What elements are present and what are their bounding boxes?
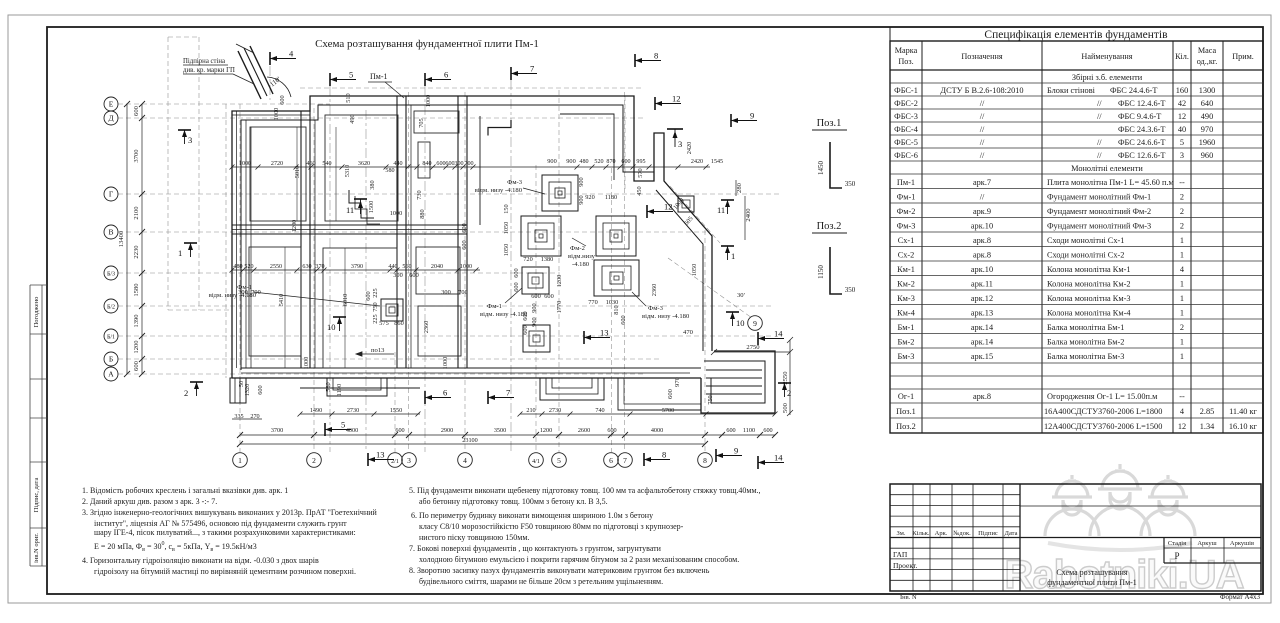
svg-text:1: 1 <box>1180 236 1184 245</box>
svg-text:А: А <box>108 370 114 379</box>
flag 2 right <box>778 383 791 398</box>
svg-text:1: 1 <box>1180 280 1184 289</box>
svg-text:11.40 кг: 11.40 кг <box>1229 407 1257 416</box>
svg-text:Фм-3: Фм-3 <box>897 222 916 231</box>
svg-text:1180: 1180 <box>605 194 617 201</box>
30 deg dashed line <box>668 258 752 318</box>
svg-text:2: 2 <box>787 388 791 398</box>
axis circle 2 <box>307 453 322 468</box>
svg-text:Поз.: Поз. <box>898 57 913 66</box>
porch bay 2 <box>540 378 604 400</box>
right dim line 2550/500 <box>789 340 791 415</box>
svg-text:1: 1 <box>178 248 182 258</box>
svg-text:1: 1 <box>1180 251 1184 260</box>
axis 4/1 line <box>535 165 537 452</box>
svg-text:13: 13 <box>376 450 385 460</box>
svg-text:7: 7 <box>623 456 627 465</box>
header bottom <box>890 69 1263 71</box>
svg-text:740: 740 <box>595 407 604 414</box>
svg-text:1200: 1200 <box>291 220 298 233</box>
svg-text:600: 600 <box>461 223 468 232</box>
svg-text:арк.8: арк.8 <box>973 236 991 245</box>
svg-text:480: 480 <box>233 264 242 270</box>
svg-text:2.85: 2.85 <box>1200 407 1215 416</box>
svg-text:відм.низу: відм.низу <box>568 253 596 260</box>
table data rows <box>894 73 1258 431</box>
svg-text:1050: 1050 <box>691 264 698 277</box>
svg-text:490: 490 <box>349 114 356 123</box>
svg-text:50: 50 <box>238 381 245 387</box>
svg-text:холодною бітумною емульсією і: холодною бітумною емульсією і покрити га… <box>419 555 739 564</box>
svg-text:Г: Г <box>109 190 114 199</box>
svg-text:6. По периметру будинку викона: 6. По периметру будинку виконати вимощен… <box>411 511 653 520</box>
flag 13 mid <box>584 328 610 345</box>
left strip column <box>29 285 31 566</box>
svg-text:1: 1 <box>1180 338 1184 347</box>
svg-text:5: 5 <box>341 420 345 430</box>
svg-text:3: 3 <box>1180 151 1184 160</box>
svg-text:Е: Е <box>109 100 114 109</box>
svg-text:150: 150 <box>503 204 510 213</box>
svg-text:1: 1 <box>1180 294 1184 303</box>
svg-text:5010: 5010 <box>294 166 301 179</box>
svg-text:арк.14: арк.14 <box>971 323 994 332</box>
axis circle 21 <box>388 453 403 468</box>
svg-text:Фм-1: Фм-1 <box>487 303 502 310</box>
svg-text:1000: 1000 <box>303 357 310 370</box>
flag 3 right chimney <box>667 129 683 149</box>
svg-text:Формат А4х3: Формат А4х3 <box>1220 593 1261 601</box>
worker left <box>1045 475 1099 536</box>
axis B line <box>118 358 660 360</box>
wall inner line 2 <box>560 114 614 180</box>
flag 6 top <box>425 70 451 87</box>
svg-text:1490: 1490 <box>310 407 322 414</box>
svg-text:2: 2 <box>1180 222 1184 231</box>
svg-text:900: 900 <box>547 158 556 165</box>
svg-text:1: 1 <box>731 251 735 261</box>
axis 2 line <box>313 108 315 452</box>
svg-text:Погоджено: Погоджено <box>33 297 40 328</box>
svg-text:--: -- <box>1179 392 1185 401</box>
bottom dim row y414 <box>300 413 420 415</box>
svg-text:5: 5 <box>1180 138 1184 147</box>
axis circle 6 <box>604 453 619 468</box>
svg-text:1190: 1190 <box>336 384 343 396</box>
interior wall v2 <box>396 96 398 368</box>
svg-text:1200: 1200 <box>556 275 563 288</box>
svg-text:відм. низу -4.180: відм. низу -4.180 <box>209 292 257 299</box>
svg-text:Колона монолітна Км-4: Колона монолітна Км-4 <box>1047 309 1131 318</box>
svg-text:5: 5 <box>557 456 561 465</box>
svg-text:Балка монолітна Бм-3: Балка монолітна Бм-3 <box>1047 352 1124 361</box>
axis circle G <box>104 187 118 201</box>
column lines <box>921 41 923 433</box>
svg-text:12: 12 <box>672 94 681 104</box>
svg-text:480: 480 <box>579 159 588 165</box>
svg-text:600: 600 <box>436 161 445 167</box>
svg-text:Колона монолітна Км-3: Колона монолітна Км-3 <box>1047 294 1131 303</box>
axis B2 line <box>118 305 772 307</box>
svg-text:Км-2: Км-2 <box>897 280 915 289</box>
svg-text:Е = 20 мПа, Фв = 300, св = 5кП: Е = 20 мПа, Фв = 300, св = 5кПа, Yв = 19… <box>94 541 257 553</box>
svg-text:Арк.: Арк. <box>935 530 948 537</box>
flag 6 bottom <box>425 388 451 405</box>
axis circle B1 <box>104 329 118 343</box>
svg-text:3: 3 <box>407 456 411 465</box>
room R4 <box>323 248 397 368</box>
svg-text:Блоки стінові: Блоки стінові <box>1047 86 1096 95</box>
svg-text:7: 7 <box>530 64 534 74</box>
svg-text:900: 900 <box>578 177 585 186</box>
svg-text:4000: 4000 <box>346 427 358 434</box>
svg-text:2360: 2360 <box>651 284 658 297</box>
svg-text:600: 600 <box>133 105 140 116</box>
svg-text:600: 600 <box>133 360 140 371</box>
svg-text:920: 920 <box>585 194 594 201</box>
svg-text:од.,кг.: од.,кг. <box>1197 57 1218 66</box>
section cut line 13 <box>365 110 367 452</box>
svg-text:970: 970 <box>674 376 681 387</box>
inner wall contour <box>241 105 654 370</box>
svg-text:Збірні з.б. елементи: Збірні з.б. елементи <box>1072 73 1143 82</box>
section cut line 7 <box>510 80 512 452</box>
svg-text:арк.10: арк.10 <box>971 222 993 231</box>
axis circle D <box>104 111 118 125</box>
svg-text:7. Бокові поверхні фундаментів: 7. Бокові поверхні фундаментів , що конт… <box>409 544 662 553</box>
svg-text:6010: 6010 <box>342 294 349 307</box>
svg-text:Аркушів: Аркушів <box>1230 540 1254 547</box>
svg-text:1. Відомість робочих креслень: 1. Відомість робочих креслень і загальні… <box>82 486 288 495</box>
svg-text:880: 880 <box>419 209 426 218</box>
svg-text:ФБС 9.4.6-Т: ФБС 9.4.6-Т <box>1118 112 1161 121</box>
svg-text:--: -- <box>1179 178 1185 187</box>
axis circle A <box>104 367 118 381</box>
svg-text:1150: 1150 <box>817 265 825 279</box>
label retaining wall <box>183 58 254 84</box>
svg-text:350: 350 <box>845 180 856 188</box>
svg-text://: // <box>1097 99 1102 108</box>
pad Fm-1 upper <box>522 267 549 294</box>
svg-text:гідроізолу на бітумній мастиці: гідроізолу на бітумній мастиці по вирівн… <box>94 567 356 576</box>
table title box <box>890 27 1263 41</box>
svg-text:5700: 5700 <box>662 407 674 414</box>
bottom dim numbers <box>234 395 772 444</box>
svg-text:13400: 13400 <box>118 230 125 247</box>
svg-text:2600: 2600 <box>578 427 590 434</box>
flag 2 bottom left <box>184 382 203 398</box>
svg-text:12: 12 <box>664 202 673 212</box>
svg-text:3: 3 <box>188 135 192 145</box>
svg-text://: // <box>980 138 985 147</box>
svg-text:300: 300 <box>441 289 450 296</box>
svg-text:520: 520 <box>594 159 603 165</box>
svg-text:1770: 1770 <box>556 301 563 314</box>
svg-text:1050: 1050 <box>503 222 510 235</box>
pad column mid <box>381 299 403 321</box>
svg-text:600: 600 <box>620 315 627 324</box>
svg-text:відм. низу -4.180: відм. низу -4.180 <box>480 311 528 318</box>
svg-text:Балка монолітна Бм-1: Балка монолітна Бм-1 <box>1047 323 1124 332</box>
svg-text:1: 1 <box>1180 352 1184 361</box>
svg-text:600: 600 <box>513 268 520 277</box>
svg-text:арк.11: арк.11 <box>971 280 993 289</box>
svg-text:600: 600 <box>365 291 372 300</box>
svg-text:630: 630 <box>302 264 311 270</box>
svg-text:1000: 1000 <box>273 108 280 121</box>
rebar Поз.2 <box>830 247 842 294</box>
pad Km small <box>678 196 694 212</box>
svg-text:3: 3 <box>678 139 682 149</box>
svg-text:840: 840 <box>422 161 431 167</box>
axis circle 41 <box>529 453 544 468</box>
pad Fm-2 left <box>521 216 561 256</box>
svg-text:960: 960 <box>1201 151 1213 160</box>
svg-text:5. Під фундаменти виконати щеб: 5. Під фундаменти виконати щебеневу підг… <box>409 486 761 495</box>
svg-text:Позначення: Позначення <box>961 52 1002 61</box>
svg-text:380: 380 <box>369 180 376 189</box>
axis E line <box>118 103 330 105</box>
svg-text:8. Зворотню засипку пазух фунд: 8. Зворотню засипку пазух фундаментів ви… <box>409 566 710 575</box>
svg-text:ГАП: ГАП <box>893 550 908 559</box>
svg-text:600: 600 <box>395 427 404 434</box>
svg-text:490: 490 <box>1201 112 1213 121</box>
axis circle E <box>104 97 118 111</box>
flag 8 top <box>635 51 661 68</box>
svg-text:6: 6 <box>443 388 447 398</box>
svg-text:ФБС-3: ФБС-3 <box>894 112 918 121</box>
svg-text:1450: 1450 <box>817 161 825 176</box>
axis V line <box>118 231 706 233</box>
plate edge dashed left <box>225 104 227 378</box>
svg-text:Км-1: Км-1 <box>897 265 915 274</box>
svg-text:по13: по13 <box>371 347 385 354</box>
flag 7 top <box>511 64 537 81</box>
svg-text:900: 900 <box>531 303 538 312</box>
left dim numbers <box>118 105 140 371</box>
svg-text:-4.180: -4.180 <box>572 261 590 268</box>
svg-text:505: 505 <box>683 215 694 227</box>
svg-text:500: 500 <box>782 402 789 413</box>
svg-text:Дата: Дата <box>1005 530 1018 537</box>
svg-text:8: 8 <box>662 450 666 460</box>
svg-text:відм. низу -4.180: відм. низу -4.180 <box>475 187 523 194</box>
svg-text:2400: 2400 <box>745 208 752 222</box>
axis circle 8 <box>698 453 713 468</box>
svg-text:575: 575 <box>379 320 388 327</box>
svg-text:335: 335 <box>234 413 243 420</box>
pad Fm-1 lower <box>523 325 550 352</box>
svg-text:класу С8/10 морозостійкістю F5: класу С8/10 морозостійкістю F50 товщиною… <box>419 522 684 531</box>
axis 8 line <box>704 230 706 452</box>
svg-text:1580: 1580 <box>133 283 140 297</box>
axis A line <box>118 373 645 375</box>
axis circle V <box>104 225 118 239</box>
left dim line main <box>141 104 143 374</box>
annex lower plate lines <box>618 378 701 410</box>
svg-text:Поз.1: Поз.1 <box>817 118 842 129</box>
svg-text:фундаментної плити Пм-1: фундаментної плити Пм-1 <box>1047 578 1137 587</box>
svg-text:600: 600 <box>531 293 540 300</box>
flag 9 top <box>731 111 757 128</box>
svg-text:2: 2 <box>1180 207 1184 216</box>
svg-text:Б/1: Б/1 <box>107 335 115 341</box>
svg-text:ФБС-1: ФБС-1 <box>894 86 918 95</box>
svg-text:860: 860 <box>394 320 403 327</box>
svg-text:280: 280 <box>736 182 743 193</box>
flag 14 bottom <box>758 453 784 470</box>
svg-text:ФБС 24.6.6-Т: ФБС 24.6.6-Т <box>1118 138 1165 147</box>
svg-text:будівельного сміття, шарами не: будівельного сміття, шарами не більше 20… <box>419 577 663 586</box>
svg-text:2420: 2420 <box>691 159 703 165</box>
svg-text:8: 8 <box>703 456 707 465</box>
bottom step line <box>300 387 420 389</box>
svg-text:600: 600 <box>763 427 772 434</box>
svg-text:2550: 2550 <box>270 264 282 270</box>
svg-text:700: 700 <box>464 161 473 167</box>
svg-text:700: 700 <box>458 289 467 296</box>
flag 3 left <box>178 130 192 145</box>
table outline <box>890 41 1263 433</box>
svg-text:Пм-1: Пм-1 <box>897 178 915 187</box>
svg-text:42: 42 <box>1178 99 1186 108</box>
right dim numbers <box>667 182 789 413</box>
dim row y167 numbers <box>239 159 723 174</box>
svg-text:арк.15: арк.15 <box>971 352 993 361</box>
svg-text:440: 440 <box>393 161 402 167</box>
right part <box>1020 505 1261 507</box>
svg-text:1000: 1000 <box>239 161 251 167</box>
flag 12 right <box>647 202 673 219</box>
flag 1 left <box>178 243 197 258</box>
svg-text:14: 14 <box>774 453 783 463</box>
label Fm-2 <box>568 238 596 268</box>
flag 9 bottom <box>716 446 742 463</box>
flag 11 right <box>717 200 734 215</box>
svg-text:1200: 1200 <box>133 340 140 354</box>
svg-text:4: 4 <box>1180 265 1185 274</box>
svg-text:4: 4 <box>1180 407 1185 416</box>
svg-text:1550: 1550 <box>390 407 402 414</box>
axis B3 line <box>118 272 560 274</box>
svg-text:Сходи монолітні Сх-1: Сходи монолітні Сх-1 <box>1047 236 1124 245</box>
svg-text:4: 4 <box>289 49 294 59</box>
flag 14 right <box>758 329 784 346</box>
svg-text:5: 5 <box>349 70 353 80</box>
svg-text:1050: 1050 <box>503 244 510 257</box>
svg-text:інв.N ориг.: інв.N ориг. <box>33 533 40 563</box>
horizontal dim row y167 <box>232 166 710 168</box>
svg-text:900: 900 <box>531 317 538 326</box>
section cut line 6 <box>424 86 426 452</box>
svg-text:750: 750 <box>372 302 379 311</box>
pad Fm-3 top <box>542 175 578 211</box>
svg-text:460: 460 <box>306 161 315 167</box>
pad Fm-3 bottom <box>594 260 639 296</box>
axis circle 7 <box>618 453 633 468</box>
svg-text:300: 300 <box>454 161 463 167</box>
axis 4 line <box>464 92 466 452</box>
svg-text:арк.9: арк.9 <box>973 207 991 216</box>
svg-text:Бм-2: Бм-2 <box>898 338 915 347</box>
svg-text:4. Горизонтальну гідроізоляцію: 4. Горизонтальну гідроізоляцію виконати … <box>82 556 319 565</box>
svg-text:Сх-1: Сх-1 <box>898 236 915 245</box>
svg-text:3620: 3620 <box>358 161 370 167</box>
svg-text:3. Згідно інженерно-геологічни: 3. Згідно інженерно-геологічних вишукува… <box>82 508 378 517</box>
svg-text:Поз.1: Поз.1 <box>896 407 916 416</box>
svg-text:2100: 2100 <box>133 206 140 220</box>
svg-text:450: 450 <box>636 186 643 195</box>
svg-text:Аркуш: Аркуш <box>1197 540 1216 547</box>
svg-text:Фм-1: Фм-1 <box>897 193 916 202</box>
flag 7 bottom <box>488 388 514 405</box>
svg-text:ФБС 12.4.6-Т: ФБС 12.4.6-Т <box>1118 99 1165 108</box>
axis circle 9 diag <box>748 316 763 331</box>
svg-text:Поз.2: Поз.2 <box>896 422 916 431</box>
bottom wall inner <box>241 367 701 369</box>
svg-text:арк.14: арк.14 <box>971 338 994 347</box>
svg-text:6: 6 <box>444 70 448 80</box>
dim 2400/280 line right <box>744 196 746 240</box>
svg-text:ФБС-6: ФБС-6 <box>894 151 918 160</box>
svg-text:1545: 1545 <box>711 159 723 165</box>
svg-text:2360: 2360 <box>423 321 430 334</box>
svg-text:16.10 кг: 16.10 кг <box>1229 422 1258 431</box>
svg-text:№док.: №док. <box>953 530 971 537</box>
svg-text:770: 770 <box>588 299 597 306</box>
svg-text:арк.8: арк.8 <box>973 392 991 401</box>
svg-text:Сходи монолітні Сх-2: Сходи монолітні Сх-2 <box>1047 251 1124 260</box>
svg-text:3790: 3790 <box>351 264 363 270</box>
axis 2/1 line <box>394 352 396 452</box>
svg-text:Найменування: Найменування <box>1081 52 1132 61</box>
bottom main dim row y435 <box>240 434 775 436</box>
svg-text:350: 350 <box>845 286 856 294</box>
svg-text:Фм-2: Фм-2 <box>897 207 916 216</box>
row lines <box>890 83 1263 418</box>
svg-text:1320: 1320 <box>244 384 251 397</box>
svg-text:Фм-3: Фм-3 <box>507 179 523 186</box>
svg-text:600: 600 <box>445 161 454 167</box>
svg-text:9: 9 <box>750 111 754 121</box>
svg-text:Інв. N: Інв. N <box>900 594 917 601</box>
rebar Поз.1 <box>830 142 842 188</box>
svg-text:225: 225 <box>372 314 379 323</box>
svg-text://: // <box>980 112 985 121</box>
shaft room <box>418 142 430 178</box>
svg-text:2720: 2720 <box>271 161 283 167</box>
svg-text:520: 520 <box>244 264 253 270</box>
svg-text:Б: Б <box>109 355 113 364</box>
svg-text:ФБС-2: ФБС-2 <box>894 99 918 108</box>
svg-text:2: 2 <box>1180 193 1184 202</box>
svg-text://: // <box>980 125 985 134</box>
svg-text:370: 370 <box>315 264 324 270</box>
svg-text:2730: 2730 <box>347 407 359 414</box>
svg-text:Зм.: Зм. <box>897 530 906 537</box>
svg-text:640: 640 <box>1201 99 1213 108</box>
svg-text:1000: 1000 <box>460 264 472 270</box>
svg-text:Фм-1: Фм-1 <box>237 284 252 291</box>
svg-text:арк.10: арк.10 <box>971 265 993 274</box>
room R3 <box>249 247 301 356</box>
svg-text:1300: 1300 <box>1199 86 1216 95</box>
label Pm-1 top <box>368 72 404 98</box>
arms band <box>1048 543 1192 550</box>
svg-text:4/1: 4/1 <box>532 459 540 465</box>
svg-text:2750: 2750 <box>746 344 760 351</box>
svg-text:ФБС 12.6.6-Т: ФБС 12.6.6-Т <box>1118 151 1165 160</box>
